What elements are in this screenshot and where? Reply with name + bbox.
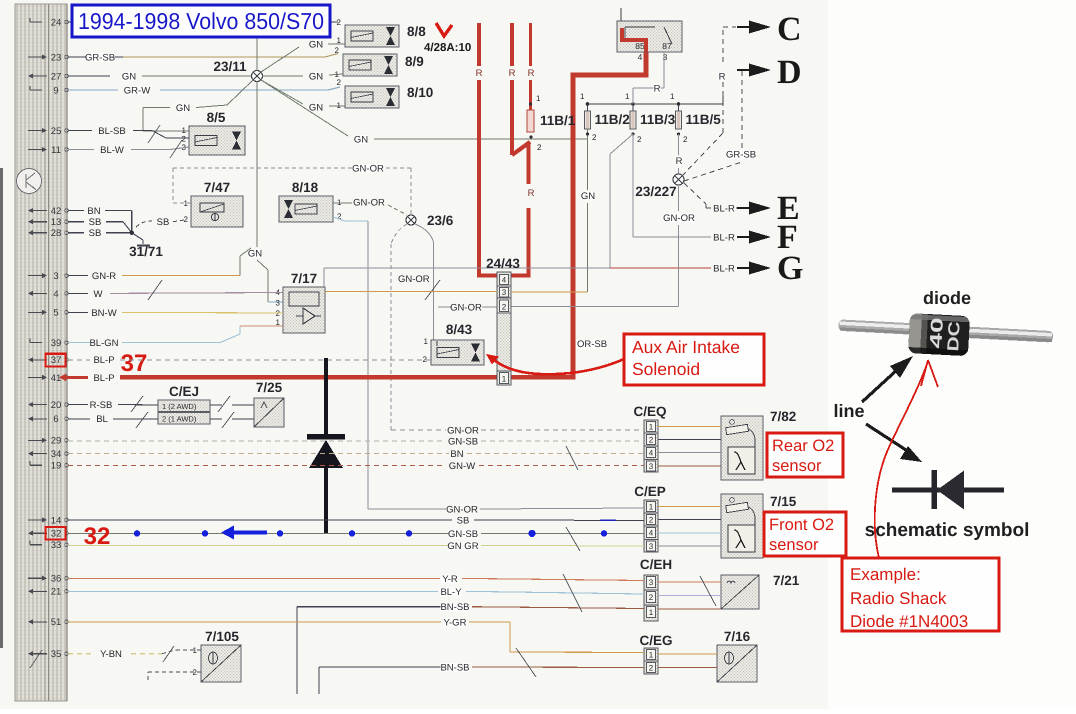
svg-text:GN-SB: GN-SB: [448, 437, 478, 448]
wire GN node to 8/5 pin1: [143, 80, 253, 131]
svg-text:Y-R: Y-R: [442, 574, 458, 585]
svg-text:1: 1: [649, 503, 654, 512]
arrow D: [737, 54, 802, 91]
svg-text:2: 2: [502, 303, 507, 312]
wire 11B/3 to F: [633, 134, 737, 244]
svg-text:GN: GN: [248, 249, 262, 260]
svg-text:3: 3: [663, 52, 668, 62]
svg-text:GN: GN: [309, 40, 323, 51]
node 23/6: [406, 213, 454, 228]
wire SB pin28: [68, 228, 132, 239]
svg-text:D: D: [777, 54, 802, 91]
svg-text:GN-SB: GN-SB: [448, 529, 478, 540]
svg-text:1: 1: [670, 92, 675, 101]
red annotation box Aux Air Intake Solenoid: [624, 334, 764, 385]
connector C/EJ: [158, 384, 210, 424]
dashed stub 7/105 pin2: [30, 646, 201, 680]
svg-text:GN GR: GN GR: [447, 541, 478, 552]
wire 7/17 right to G line: [323, 268, 325, 287]
svg-text:BL-R: BL-R: [713, 233, 735, 244]
svg-text:11B/5: 11B/5: [686, 112, 722, 127]
svg-text:SB: SB: [457, 515, 470, 526]
svg-text:35: 35: [51, 649, 62, 660]
svg-text:SB: SB: [89, 217, 102, 228]
scan edge artifact: [0, 168, 3, 648]
svg-text:R: R: [676, 156, 683, 167]
wire GN node to title box (vertical): [256, 37, 258, 71]
jog marks C/EQ rows: [566, 446, 578, 470]
wire GN-OR dashed to 7/47 pin1: [173, 168, 191, 203]
wire GN-SB row pin32: [68, 529, 644, 540]
wires C/EQ to 7/82: [658, 427, 721, 467]
svg-text:R: R: [719, 72, 726, 83]
svg-text:2: 2: [537, 143, 542, 152]
svg-text:BL-P: BL-P: [93, 355, 114, 366]
svg-text:23/6: 23/6: [427, 213, 454, 228]
wire Y-GR row pin51: [68, 617, 717, 654]
wire GN-OR node down to 24/43 pin2: [511, 185, 695, 307]
diode D1 (added diode between pin37 and pin32 wires): [307, 358, 345, 534]
relay 8/8: [337, 18, 427, 47]
wire GN node to 11B/2 branch (long diagonal): [261, 80, 587, 146]
svg-text:Diode #1N4003: Diode #1N4003: [850, 612, 968, 631]
svg-text:2: 2: [337, 78, 342, 87]
svg-text:1: 1: [337, 36, 342, 45]
svg-text:9: 9: [53, 85, 58, 96]
svg-text:33: 33: [51, 540, 62, 551]
arrow G: [737, 250, 803, 287]
connector C/EQ: [633, 404, 666, 472]
svg-text:R: R: [476, 68, 483, 79]
svg-text:R: R: [528, 188, 535, 199]
svg-text:8/18: 8/18: [292, 180, 319, 195]
wire BL-SB pin25 to 8/5 pin2: [68, 126, 189, 138]
relay 7/47: [184, 180, 243, 227]
wire SB pin13: [68, 217, 132, 233]
svg-text:24: 24: [51, 17, 62, 28]
svg-text:2: 2: [184, 215, 189, 224]
blue dots on pin32 wire: [134, 530, 607, 537]
svg-text:42: 42: [51, 206, 62, 217]
svg-text:R: R: [654, 84, 661, 95]
wire SB dashed to 7/47 pin2: [136, 217, 184, 228]
svg-text:7/25: 7/25: [256, 380, 283, 395]
svg-text:GN-W: GN-W: [449, 461, 475, 472]
svg-text:Aux Air Intake: Aux Air Intake: [632, 337, 740, 357]
connector C/EH: [640, 557, 672, 621]
svg-text:SB: SB: [89, 228, 102, 239]
svg-text:BL-SB: BL-SB: [98, 126, 125, 137]
svg-text:4: 4: [649, 529, 654, 538]
svg-text:2: 2: [193, 668, 198, 677]
svg-text:SB: SB: [157, 217, 170, 228]
svg-text:1: 1: [193, 646, 198, 655]
wire GN node down to 7/17: [248, 82, 283, 303]
svg-text:5: 5: [53, 308, 58, 319]
svg-text:BL: BL: [96, 414, 108, 425]
fuse 11B/1: [527, 94, 576, 152]
svg-text:31/71: 31/71: [129, 244, 163, 259]
svg-text:8/5: 8/5: [207, 110, 226, 125]
svg-text:3: 3: [649, 578, 654, 587]
ground 31/71: [129, 233, 163, 259]
title box 1994-1998 Volvo 850/S70: [72, 5, 330, 37]
svg-text:28: 28: [51, 228, 62, 239]
svg-text:3: 3: [502, 288, 507, 297]
black arrow line-to-photo: [862, 356, 913, 402]
wire R-SB pin20 to C/EJ 1: [68, 400, 158, 411]
label diode: [923, 288, 971, 308]
svg-text:23/11: 23/11: [213, 59, 247, 74]
svg-text:7/21: 7/21: [773, 573, 800, 588]
wires C/EP to 7/15: [658, 507, 721, 547]
svg-text:4: 4: [638, 52, 643, 62]
svg-text:20: 20: [51, 400, 62, 411]
svg-text:BL-GN: BL-GN: [89, 338, 118, 349]
svg-text:3: 3: [276, 299, 281, 308]
red label 37: [121, 350, 148, 377]
wire GN-OR 8/18 pin1 to 23/6: [333, 198, 407, 216]
wire GN pin27 to node 23/11: [68, 72, 252, 83]
svg-text:4/28A:10: 4/28A:10: [424, 42, 471, 54]
component 7/25: [254, 380, 284, 427]
wire BL-P pin37 dashed: [68, 355, 427, 366]
svg-text:85: 85: [635, 41, 645, 51]
relay 7/17: [276, 271, 325, 333]
rear O2 sensor 7/82: [721, 409, 796, 480]
jog mark near 8/5: [148, 125, 182, 158]
red box pin32: [46, 527, 66, 540]
red arrow at pin41: [59, 374, 66, 382]
red wire inside relay: [622, 28, 646, 52]
red wire R vertical 2: [509, 23, 530, 155]
wire dashed R to arrow C: [682, 27, 736, 176]
svg-text:1: 1: [649, 651, 654, 660]
svg-text:21: 21: [51, 587, 62, 598]
wire GN node to 8/8 pin1: [261, 40, 345, 73]
fuse 11B/3: [630, 104, 676, 144]
svg-text:1: 1: [625, 92, 630, 101]
svg-text:GN: GN: [581, 191, 595, 202]
label line: [833, 401, 864, 421]
svg-text:GN-R: GN-R: [92, 271, 116, 282]
svg-text:GN-OR: GN-OR: [353, 198, 385, 209]
red arrow to 8/43: [486, 354, 624, 374]
svg-text:GN-OR: GN-OR: [663, 213, 695, 224]
fuse 11B/5: [676, 104, 722, 144]
svg-text:GR-SB: GR-SB: [85, 53, 115, 64]
wire BL-P dashed into 8/43 pin2: [427, 359, 431, 361]
wire 23/6 to GN-OR C/EQ dashed: [391, 224, 430, 430]
svg-text:GN-OR: GN-OR: [450, 303, 482, 314]
svg-text:schematic symbol: schematic symbol: [865, 520, 1030, 541]
node 23/11: [213, 59, 262, 82]
svg-text:7/47: 7/47: [204, 180, 230, 195]
svg-text:R-SB: R-SB: [90, 400, 113, 411]
svg-text:BL-W: BL-W: [100, 145, 124, 156]
wire GN-SB dashed row pin29: [68, 437, 644, 448]
svg-text:3: 3: [649, 462, 654, 471]
svg-text:7/15: 7/15: [770, 494, 797, 509]
svg-text:32: 32: [84, 523, 111, 550]
component 7/16: [717, 629, 757, 682]
connector symbol K circle: [17, 169, 42, 194]
svg-text:41: 41: [51, 373, 62, 384]
svg-text:2: 2: [649, 664, 654, 673]
svg-text:Front O2: Front O2: [769, 516, 834, 534]
jog marks C/EP rows: [566, 527, 580, 551]
svg-text:1: 1: [649, 608, 654, 617]
wire GN 11B/2 down: [581, 139, 595, 292]
svg-text:2: 2: [592, 133, 597, 142]
svg-text:BL-Y: BL-Y: [440, 587, 462, 598]
wire orange 7/17 pin4 to 24/43 pin3 to GN vertical: [325, 291, 588, 294]
ECU connector strip (left edge): [15, 4, 67, 701]
connector 24/43: [486, 256, 520, 385]
wire Y-BN dashed pin35: [68, 649, 201, 660]
black arrow line-to-symbol: [866, 424, 922, 462]
svg-text:C/EQ: C/EQ: [633, 404, 666, 419]
wire BL-W pin11 to 8/5 pin3: [68, 145, 189, 156]
svg-text:GR-W: GR-W: [124, 86, 150, 97]
svg-text:51: 51: [51, 617, 62, 628]
red check mark 4/28A:10: [436, 23, 452, 36]
wire BN-SB bottom row: [319, 663, 717, 695]
diode photo leads: [838, 319, 1053, 342]
connector pin numbers and arrows: [28, 17, 68, 660]
svg-text:DC: DC: [945, 320, 964, 351]
svg-text:GN: GN: [176, 103, 190, 114]
wire BL-GN pin39 to 7/17 pin1: [68, 326, 283, 349]
svg-text:14: 14: [51, 515, 62, 526]
svg-text:2: 2: [423, 355, 428, 364]
svg-text:2: 2: [337, 18, 342, 27]
svg-text:BL-R: BL-R: [713, 204, 735, 215]
svg-text:32: 32: [51, 529, 62, 540]
wire SB row pin14: [68, 515, 644, 526]
svg-text:87: 87: [662, 41, 672, 51]
svg-text:R: R: [509, 68, 516, 79]
svg-text:GN-OR: GN-OR: [352, 164, 384, 175]
svg-text:C/EP: C/EP: [634, 484, 666, 499]
svg-text:sensor: sensor: [772, 457, 822, 475]
blue arrow current direction: [221, 526, 267, 540]
svg-text:BL-P: BL-P: [93, 373, 114, 384]
wire GN-OR dashed horizontal: [173, 164, 411, 215]
svg-text:GN-OR: GN-OR: [446, 505, 478, 516]
wire Y-R row pin36: [68, 574, 721, 585]
wire GN-OR row to C/EP pin1: [368, 505, 644, 516]
wire 11B/3 to G: [610, 134, 633, 268]
wire R 11B/5 to node 23/227: [675, 134, 682, 174]
svg-text:OR-SB: OR-SB: [577, 339, 607, 350]
connector C/EP: [634, 484, 666, 552]
svg-text:BN-SB: BN-SB: [440, 602, 469, 613]
svg-text:C: C: [777, 11, 802, 48]
svg-text:1: 1: [536, 94, 541, 103]
relay 8/5: [182, 110, 245, 155]
svg-text:G: G: [777, 250, 803, 287]
label 4/28A:10: [424, 42, 471, 54]
svg-text:BN-W: BN-W: [91, 308, 116, 319]
wire GR-W pin9 to 8/10 pin2: [68, 86, 340, 97]
red box pin37: [46, 354, 66, 367]
fuse 11B/2: [585, 104, 630, 142]
wires C/EJ to 7/25: [210, 396, 254, 428]
svg-text:1994-1998 Volvo 850/S70: 1994-1998 Volvo 850/S70: [78, 8, 324, 34]
svg-text:4: 4: [502, 276, 507, 285]
jog marks C/EJ: [131, 396, 148, 428]
red wire R vertical 1: [476, 23, 483, 278]
relay 8/10: [337, 78, 434, 110]
red annotation box Rear O2 sensor: [767, 433, 843, 477]
connector C/EG: [639, 633, 672, 674]
svg-text:line: line: [833, 401, 864, 421]
rail junction dots: [580, 92, 680, 106]
svg-text:13: 13: [51, 217, 62, 228]
jog mark rows 3-5: [148, 280, 440, 300]
wire BL pin6 to C/EJ 2: [68, 414, 158, 425]
svg-text:2: 2: [335, 46, 340, 55]
red annotation box Front O2 sensor: [764, 512, 846, 556]
schematic diode symbol: [892, 470, 1004, 510]
wire dashed GR-SB to arrow D: [684, 70, 756, 181]
svg-text:2: 2: [637, 135, 642, 144]
svg-text:39: 39: [51, 338, 62, 349]
svg-text:2: 2: [649, 516, 654, 525]
relay 8/18: [279, 180, 342, 222]
svg-text:37: 37: [51, 355, 62, 366]
solenoid 8/43: [423, 322, 484, 365]
svg-text:23: 23: [51, 52, 62, 63]
svg-text:4: 4: [53, 289, 58, 300]
svg-text:2: 2: [649, 593, 654, 602]
svg-text:3: 3: [649, 542, 654, 551]
svg-text:R: R: [528, 68, 535, 79]
wire G line: [324, 264, 735, 275]
arrow F: [737, 219, 798, 256]
svg-text:7/16: 7/16: [724, 629, 751, 644]
svg-text:29: 29: [51, 436, 62, 447]
wire GN-OR left stub 24/43 pin2: [438, 303, 497, 314]
svg-text:Y-GR: Y-GR: [444, 617, 467, 628]
node 23/227: [635, 174, 684, 199]
svg-text:1: 1: [580, 92, 585, 101]
svg-text:1: 1: [337, 101, 342, 110]
svg-text:GN: GN: [354, 135, 368, 146]
svg-text:1 (2 AWD): 1 (2 AWD): [162, 402, 197, 411]
svg-text:E: E: [777, 190, 800, 227]
svg-text:GN-OR: GN-OR: [447, 426, 479, 437]
jog marks C/EH rows: [563, 574, 716, 612]
svg-text:40: 40: [926, 317, 947, 349]
svg-text:1: 1: [649, 423, 654, 432]
svg-text:W: W: [94, 289, 103, 300]
svg-text:6: 6: [53, 414, 58, 425]
svg-text:8/9: 8/9: [405, 54, 424, 69]
svg-text:BN-SB: BN-SB: [440, 663, 469, 674]
relay 8/9: [335, 46, 424, 79]
svg-text:GN: GN: [309, 72, 323, 83]
wire GN node to 8/10 pin1: [261, 80, 345, 114]
svg-text:34: 34: [51, 449, 62, 460]
red wire R vertical 3: [528, 23, 535, 110]
svg-text:C/EJ: C/EJ: [169, 384, 199, 399]
wire R from relay pin3: [633, 52, 664, 104]
wire BN-SB row: [297, 602, 721, 694]
svg-text:BN: BN: [450, 449, 463, 460]
wire dashed BL-R to arrow E: [684, 183, 737, 215]
label OR-SB: [576, 339, 607, 350]
svg-text:7/17: 7/17: [291, 271, 317, 286]
svg-text:BN: BN: [87, 206, 100, 217]
svg-text:Rear O2: Rear O2: [772, 437, 834, 455]
arrow C: [737, 11, 802, 48]
wire BN pin42: [68, 206, 132, 233]
svg-text:24/43: 24/43: [486, 256, 520, 271]
svg-text:C/EH: C/EH: [640, 557, 672, 572]
component 7/21: [721, 573, 800, 609]
svg-text:7/82: 7/82: [770, 409, 796, 424]
arrow E: [737, 190, 800, 227]
svg-text:Solenoid: Solenoid: [632, 359, 700, 379]
svg-text:8/8: 8/8: [407, 24, 426, 39]
wire BN-W pin5 to 7/17 pin2: [68, 308, 283, 319]
svg-text:GN: GN: [122, 72, 136, 83]
svg-text:GR-SB: GR-SB: [726, 150, 756, 161]
svg-text:11B/3: 11B/3: [640, 112, 676, 127]
svg-text:37: 37: [121, 350, 148, 377]
svg-text:11B/2: 11B/2: [595, 112, 630, 127]
svg-text:19: 19: [51, 461, 62, 472]
wire GR-SB pin23 to 8/9 pin2: [68, 53, 338, 64]
svg-text:4: 4: [649, 449, 654, 458]
wire 23/6 to 8/43 pin1: [415, 224, 437, 341]
red wire BL-P pin41 main run: [66, 52, 646, 384]
wire BN dashed row pin34: [68, 449, 644, 460]
wire GN-W dashed row pin19: [68, 461, 644, 472]
red wire 24/43 loop: [479, 142, 535, 276]
svg-text:Radio Shack: Radio Shack: [850, 589, 947, 608]
front O2 sensor 7/15: [721, 494, 797, 558]
wire GN-R pin3: [68, 248, 251, 282]
svg-text:2: 2: [649, 436, 654, 445]
svg-text:11B/1: 11B/1: [540, 113, 576, 128]
label schematic symbol: [865, 520, 1030, 541]
relay top-right (power relay): [617, 8, 682, 62]
svg-text:3: 3: [53, 271, 58, 282]
component 7/105: [193, 629, 241, 682]
wire GN node to 8/9 pin1: [263, 72, 344, 83]
svg-text:Example:: Example:: [850, 565, 921, 584]
svg-text:sensor: sensor: [769, 536, 819, 554]
svg-text:GN-OR: GN-OR: [398, 274, 430, 285]
wire BL-Y row pin21: [68, 587, 721, 598]
wire GN-GR row pin33: [68, 541, 644, 552]
svg-text:diode: diode: [923, 288, 971, 308]
svg-text:27: 27: [51, 71, 62, 82]
svg-text:7/105: 7/105: [205, 629, 239, 644]
svg-text:23/227: 23/227: [635, 184, 676, 199]
svg-text:1: 1: [424, 337, 429, 346]
svg-text:11: 11: [51, 145, 61, 156]
svg-text:2 (1 AWD): 2 (1 AWD): [162, 415, 197, 424]
red curved arrow example-to-diode: [875, 360, 938, 558]
jog marks C/EG rows: [516, 648, 536, 677]
wire 8/18 pin2 down: [333, 217, 368, 509]
svg-text:C/EG: C/EG: [639, 633, 672, 648]
svg-text:25: 25: [51, 126, 62, 137]
